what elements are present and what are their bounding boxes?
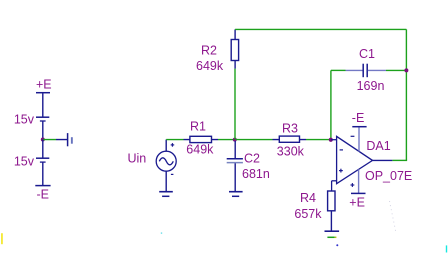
value label 15v: [14, 112, 35, 126]
wire: [43, 139, 56, 141]
wire non-inverting input: [332, 181, 337, 191]
node +E supply bar (op-amp): [351, 192, 366, 194]
pin negative supply lead: [358, 127, 360, 151]
svg-text:649k: 649k: [196, 59, 224, 73]
wire: [42, 93, 44, 118]
wire: [306, 139, 331, 141]
pin positive supply lead: [358, 169, 360, 193]
artifact blue dot: [336, 244, 338, 246]
pin marker + positive supply: [351, 183, 355, 187]
wire output: [392, 159, 407, 161]
artifact dotted trail: [390, 201, 397, 233]
node +E (battery top terminal bar): [36, 92, 50, 94]
label I: [71, 137, 73, 144]
wire: [42, 140, 44, 159]
svg-text:657k: 657k: [294, 207, 322, 221]
svg-text:R4: R4: [300, 191, 316, 205]
svg-text:R3: R3: [282, 121, 298, 135]
capacitor C1: [331, 64, 406, 77]
wire: [234, 69, 236, 140]
wire feedback left vertical: [330, 70, 332, 138]
wire: [42, 121, 44, 140]
wire right vertical: [405, 29, 407, 160]
svg-text:C1: C1: [359, 47, 375, 61]
resistor R4: [328, 191, 335, 231]
label C2: [244, 151, 260, 165]
ground under R4: [325, 231, 340, 237]
svg-text:649k: 649k: [186, 142, 214, 156]
label -E (op-amp): [352, 111, 365, 125]
op-amp DA1: [337, 136, 373, 183]
wire: [42, 162, 44, 186]
wire: [166, 139, 183, 141]
resistor R2: [231, 29, 238, 68]
artifact cyan dot: [161, 232, 162, 233]
svg-text:Uin: Uin: [128, 152, 147, 166]
node B inverting input junction: [329, 138, 333, 142]
source Uin: [156, 151, 176, 171]
wire top feedback: [235, 28, 406, 30]
polarity + of Uin: [171, 143, 175, 147]
label R1: [190, 119, 206, 133]
label -E: [37, 188, 50, 202]
svg-text:+E: +E: [36, 77, 52, 91]
label +E: [36, 77, 52, 91]
label R4: [300, 191, 316, 205]
value label 15v: [14, 154, 35, 168]
svg-text:DA1: DA1: [366, 139, 390, 153]
ground under Uin: [159, 192, 173, 197]
ground under C2: [229, 192, 243, 197]
label Uin: [128, 152, 147, 166]
svg-text:-E: -E: [352, 111, 365, 125]
value label 169n: [357, 79, 385, 93]
label R3: [282, 121, 298, 135]
wire output lead: [373, 159, 393, 161]
wire: [165, 140, 167, 152]
label OP_07E: [365, 169, 412, 183]
label R2: [201, 43, 217, 57]
artifact cyan caret: [446, 245, 447, 252]
wire: [165, 171, 167, 191]
value label 649k: [186, 142, 214, 156]
value label 681n: [242, 167, 270, 181]
pin marker + non-inverting input: [339, 169, 343, 173]
label C1: [359, 47, 375, 61]
svg-text:15v: 15v: [14, 112, 35, 126]
capacitor C2: [227, 141, 243, 192]
svg-text:15v: 15v: [14, 154, 35, 168]
battery V1: [36, 117, 49, 121]
value label 657k: [294, 207, 322, 221]
svg-text:330k: 330k: [277, 144, 305, 158]
resistor R1: [184, 136, 219, 142]
node mid junction: [41, 138, 45, 142]
svg-text:-E: -E: [37, 188, 50, 202]
value label 330k: [277, 144, 305, 158]
battery V2: [36, 158, 49, 162]
artifact yellow caret: [1, 233, 3, 244]
svg-text:+E: +E: [349, 195, 365, 209]
polarity - of Uin: [171, 173, 174, 175]
node -E supply bar (op-amp): [352, 126, 366, 128]
svg-text:681n: 681n: [242, 167, 270, 181]
resistor R3: [236, 136, 306, 142]
label +E (op-amp): [349, 195, 365, 209]
svg-text:C2: C2: [244, 151, 260, 165]
label DA1: [366, 139, 390, 153]
svg-text:OP_07E: OP_07E: [365, 169, 412, 183]
svg-text:R1: R1: [190, 119, 206, 133]
svg-text:R2: R2: [201, 43, 217, 57]
node A junction: [233, 138, 237, 142]
wire: [331, 139, 337, 141]
pin marker - negative supply: [351, 135, 355, 137]
svg-text:169n: 169n: [357, 79, 385, 93]
wire: [218, 139, 235, 141]
pin marker - inverting input: [340, 149, 343, 151]
node -E (battery bottom terminal bar): [35, 185, 50, 187]
wire: [56, 139, 67, 141]
node C1 right junction: [404, 68, 408, 72]
value label 649k: [196, 59, 224, 73]
terminal I bar: [67, 133, 69, 146]
